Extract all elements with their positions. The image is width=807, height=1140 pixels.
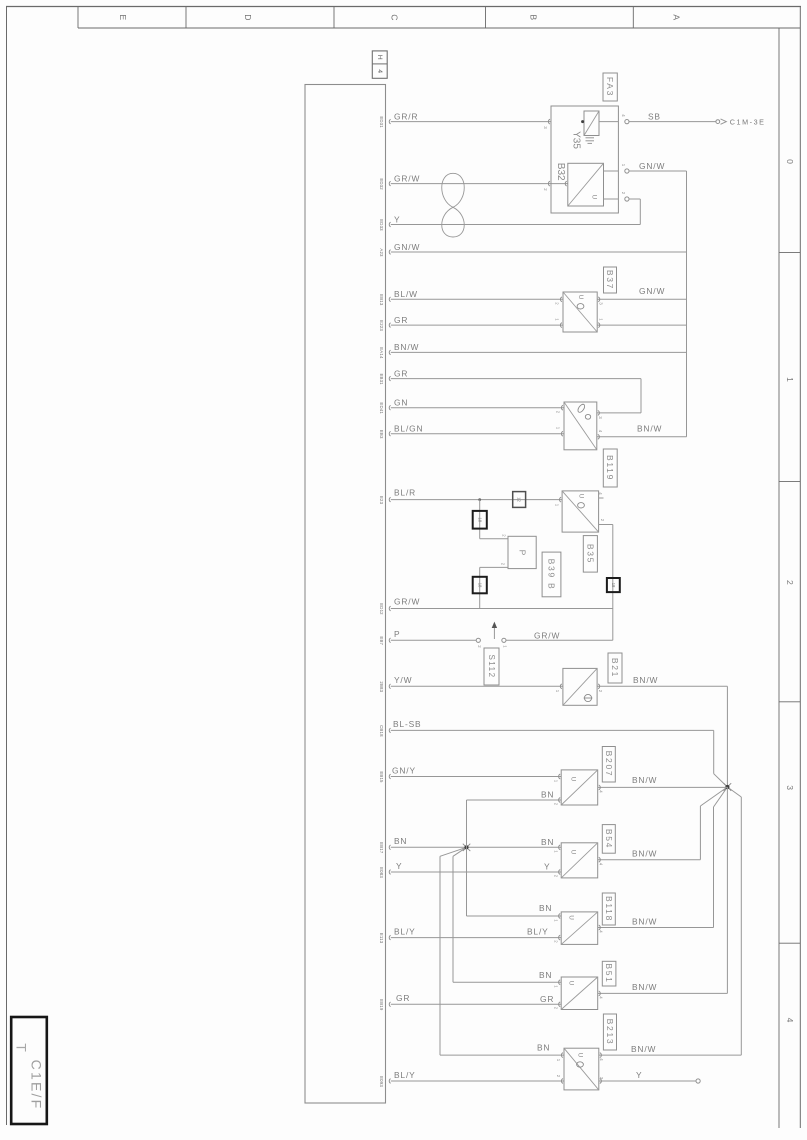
svg-text:E113: E113 [379,933,384,944]
svg-text:U: U [568,915,575,920]
svg-text:EA14: EA14 [379,347,384,359]
svg-text:BN: BN [541,790,554,800]
svg-text:B207: B207 [604,751,614,778]
svg-text:U: U [578,494,585,499]
svg-text:ED12: ED12 [379,603,384,615]
svg-text:B213: B213 [605,1019,615,1046]
svg-text:GN: GN [394,398,408,408]
svg-text:2B83: 2B83 [379,681,384,692]
svg-text:GR/W: GR/W [394,596,420,606]
svg-text:BN/W: BN/W [394,342,419,352]
svg-text:Y: Y [544,862,550,872]
svg-text:EB15: EB15 [379,771,384,783]
svg-text:U: U [568,981,575,986]
svg-text:ED41: ED41 [379,402,384,414]
svg-text:D: D [243,14,253,20]
svg-text:U: U [577,1053,584,1058]
svg-text:GR: GR [396,993,410,1003]
svg-text:E: E [118,14,128,20]
svg-text:EB3: EB3 [379,430,384,439]
svg-text:BN: BN [394,836,407,846]
svg-text:BL/Y: BL/Y [527,927,549,937]
svg-text:T: T [13,1043,29,1052]
svg-text:BN/W: BN/W [632,916,657,926]
svg-text:Y: Y [394,214,400,224]
svg-text:BN/W: BN/W [631,1044,656,1054]
svg-text:GR: GR [394,315,408,325]
svg-text:18: 18 [611,583,616,588]
svg-text:BN: BN [537,1043,550,1053]
svg-text:B54: B54 [604,829,614,849]
svg-text:EB31: EB31 [379,373,384,385]
svg-text:18: 18 [477,517,482,522]
svg-text:C: C [390,14,400,20]
svg-text:BL-SB: BL-SB [393,719,421,729]
svg-text:SB: SB [648,111,661,121]
svg-text:B39 B: B39 B [547,559,557,591]
svg-text:GN/Y: GN/Y [392,765,416,775]
svg-text:BN/W: BN/W [637,424,662,434]
svg-text:B37: B37 [605,270,615,290]
svg-text:ED33: ED33 [379,219,384,231]
svg-text:E083: E083 [379,867,384,878]
svg-text:1: 1 [785,377,795,382]
svg-text:3: 3 [785,785,795,790]
svg-text:B: B [529,14,539,20]
svg-text:U: U [590,195,597,200]
svg-text:Y/W: Y/W [394,675,412,685]
svg-text:BN/W: BN/W [633,675,658,685]
svg-text:4: 4 [376,69,383,73]
svg-text:P: P [394,629,400,639]
svg-text:BL/Y: BL/Y [394,926,416,936]
svg-text:BN/W: BN/W [632,982,657,992]
svg-text:BN: BN [539,970,552,980]
svg-text:GN/W: GN/W [394,242,420,252]
svg-text:U: U [570,777,577,782]
svg-text:C1M-3E: C1M-3E [730,117,766,126]
svg-text:ED32: ED32 [379,178,384,190]
svg-text:GR: GR [394,368,408,378]
svg-text:Y: Y [636,1070,642,1080]
svg-text:EB19: EB19 [379,999,384,1011]
svg-text:H: H [376,55,383,60]
svg-text:GN/W: GN/W [639,286,665,296]
svg-text:0: 0 [785,159,795,164]
svg-text:FA3: FA3 [605,77,615,97]
svg-text:C1E/F: C1E/F [29,1060,45,1111]
svg-text:CB18: CB18 [379,725,384,737]
svg-text:E23: E23 [379,496,384,505]
svg-text:U: U [577,295,584,300]
svg-text:B119: B119 [605,455,615,481]
svg-text:BN: BN [539,903,552,913]
svg-text:GR/W: GR/W [534,631,560,641]
svg-text:2: 2 [785,580,795,585]
svg-text:B32: B32 [555,163,566,181]
svg-text:4: 4 [785,1018,795,1023]
svg-text:BL/GN: BL/GN [394,424,423,434]
svg-text:A: A [672,14,682,20]
svg-text:B21: B21 [610,658,620,678]
svg-text:A23: A23 [379,248,384,257]
svg-text:BL/W: BL/W [394,289,418,299]
svg-text:GN/W: GN/W [639,161,665,171]
svg-text:BN/W: BN/W [632,849,657,859]
svg-text:B35: B35 [585,544,595,564]
svg-text:BL/R: BL/R [394,487,416,497]
svg-text:EB17: EB17 [379,842,384,854]
svg-text:U: U [570,850,577,855]
svg-text:P: P [518,550,528,556]
svg-text:18: 18 [477,583,482,588]
svg-text:GR: GR [540,994,554,1004]
svg-text:E223: E223 [379,320,384,331]
svg-text:BL/Y: BL/Y [394,1070,416,1080]
svg-text:EB7: EB7 [379,636,384,645]
svg-text:ED31: ED31 [379,116,384,128]
svg-text:Y: Y [396,861,402,871]
svg-text:BN: BN [541,837,554,847]
svg-text:E093: E093 [379,1076,384,1087]
svg-text:Y35: Y35 [570,131,581,149]
svg-text:S112: S112 [487,654,496,678]
svg-text:EB13: EB13 [379,294,384,306]
svg-text:B118: B118 [604,896,614,922]
svg-text:12: 12 [517,497,522,502]
svg-text:GR/R: GR/R [394,111,418,121]
svg-text:BN/W: BN/W [632,775,657,785]
svg-text:GR/W: GR/W [394,173,420,183]
svg-text:B51: B51 [604,963,614,983]
